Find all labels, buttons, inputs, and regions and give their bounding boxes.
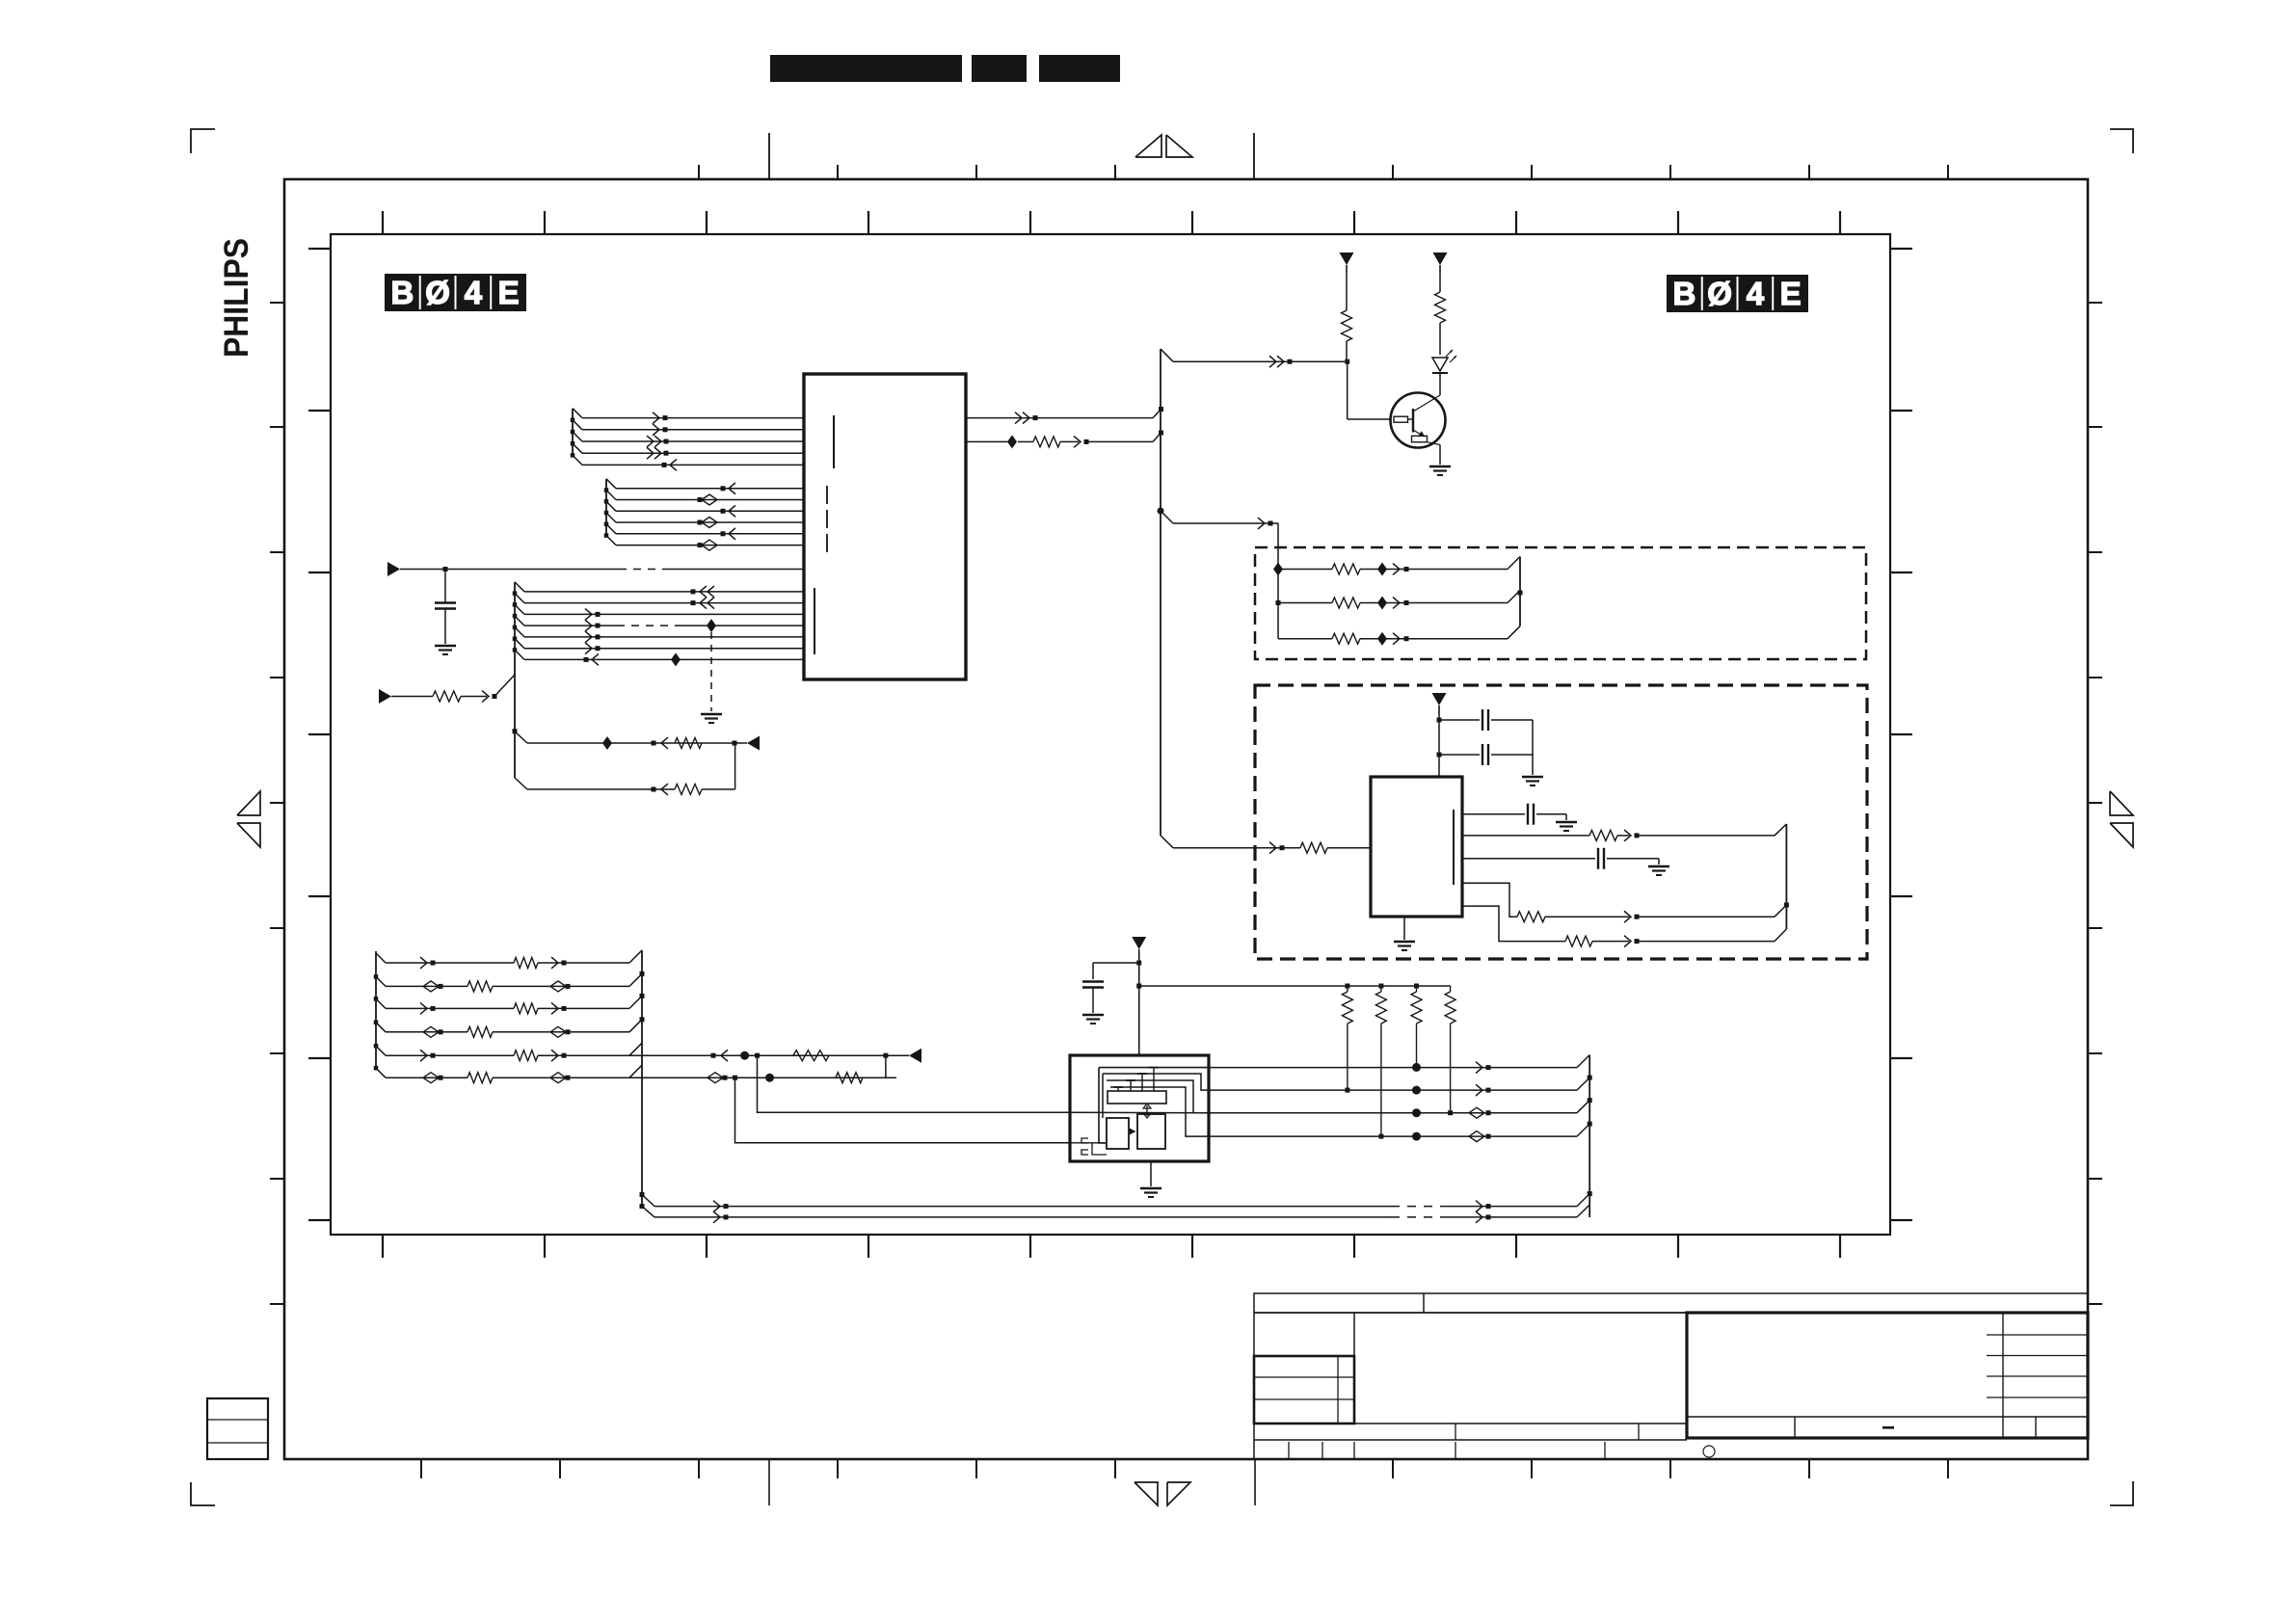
- harness wire 2: [1209, 1076, 1592, 1096]
- wire U3 ground: [1150, 1161, 1152, 1186]
- corner bracket top-left: [191, 129, 215, 153]
- resistor RN4: [1445, 986, 1455, 1115]
- wire VCC3 to U2: [1437, 713, 1442, 777]
- IC U2 (regulator): [1371, 777, 1462, 917]
- title block top band: [1254, 1293, 2088, 1313]
- title block name plate (bold): [1687, 1313, 2088, 1438]
- wire U2 ground: [1403, 917, 1405, 940]
- ground C5: [1648, 866, 1669, 875]
- wire net B upper: [642, 1050, 909, 1061]
- wire group 3 to U1: [524, 586, 804, 666]
- capacitor C2: [1439, 709, 1533, 731]
- ground stub G3: [701, 714, 722, 723]
- wire net A upper: [513, 729, 748, 750]
- input arrow B: [909, 1049, 921, 1063]
- bus vertical N2: [1159, 349, 1163, 836]
- bus stub connector J1: [571, 409, 582, 466]
- harness wire 1: [1209, 1055, 1589, 1074]
- wire row 2 of group 4: [386, 971, 645, 992]
- junction dots column: [1412, 1063, 1421, 1141]
- wire D1 to Q1 collector: [1439, 373, 1441, 395]
- bus stub connector J3: [513, 582, 524, 778]
- bus stub connector J2: [604, 479, 616, 545]
- page border bottom ticks: [421, 1459, 1948, 1505]
- wire row 6 of group 4: [386, 1073, 896, 1083]
- resistor RN2: [1375, 986, 1386, 1139]
- wire U2 pin B with R7: [1462, 824, 1786, 841]
- ground U2: [1394, 942, 1415, 950]
- wire U2 pin C with C5: [1462, 848, 1659, 869]
- wire N1 to Q1 base: [1348, 363, 1391, 419]
- capacitor C3: [1439, 720, 1533, 775]
- svg-text:Ø: Ø: [1707, 276, 1732, 311]
- input arrow IN1: [387, 562, 400, 576]
- resistor R2: [1435, 273, 1446, 355]
- title block bottom band: [1254, 1440, 1715, 1459]
- PHILIPS logo (rotated): [218, 238, 255, 358]
- wire N2 to K1: [1158, 508, 1279, 639]
- title block footer row: [1455, 1417, 2036, 1440]
- wire U2 pin D with R8: [1462, 883, 1789, 922]
- node N1: [1345, 359, 1349, 364]
- redaction bar 1 (page header): [770, 55, 962, 82]
- fold mark triangles bottom: [1135, 1482, 1190, 1505]
- dashed option box 1: [1255, 547, 1866, 659]
- power arrow VCC2: [1433, 253, 1448, 273]
- resistor RN3: [1411, 986, 1422, 1067]
- svg-text:E: E: [1780, 276, 1802, 311]
- power arrow VCC4: [1132, 937, 1146, 957]
- input arrow A: [747, 736, 760, 751]
- resistor wire row 3 in box 1: [1278, 626, 1520, 646]
- wire Q1 emitter to ground: [1439, 445, 1441, 466]
- bottom long wire 1: [642, 1191, 1592, 1211]
- resistor wire row 1 in box 1: [1278, 557, 1520, 576]
- transistor Q1: [1391, 393, 1446, 448]
- wire to U3 pin 3: [758, 1055, 1071, 1112]
- wire group 2 to U1: [616, 483, 804, 550]
- IC U3 (interface): [1070, 1055, 1209, 1161]
- revision table bottom-left: [207, 1398, 268, 1459]
- wire IN1 to U1: [400, 567, 804, 572]
- bus collector K5: [1589, 1055, 1590, 1217]
- svg-text:E: E: [498, 275, 520, 310]
- bus collector K2: [1518, 557, 1523, 626]
- wire N2 to U2 input: [1161, 836, 1371, 854]
- node label B04E right: [1667, 275, 1808, 312]
- fold mark triangles right: [2110, 791, 2133, 847]
- wire U2 pin E with R9: [1462, 906, 1786, 946]
- wire net A lower: [515, 743, 735, 795]
- ground C1: [435, 646, 456, 654]
- svg-text:PHILIPS: PHILIPS: [218, 238, 255, 358]
- harness wire 4: [1209, 1122, 1592, 1142]
- ground C2 C3: [1522, 777, 1543, 785]
- wire row 1 of group 4: [386, 950, 642, 969]
- dashed ground stub: [707, 619, 716, 711]
- title block revision column: [1987, 1313, 2088, 1438]
- fold mark triangles left: [237, 791, 260, 847]
- redaction bar 2 (page header): [972, 55, 1027, 82]
- bus collector K3: [1785, 824, 1787, 929]
- wire to U3 pin 4: [733, 1076, 1107, 1143]
- svg-text:Ø: Ø: [425, 275, 450, 310]
- ground C4: [1556, 822, 1577, 831]
- title block dash text: [1882, 1426, 1894, 1429]
- resistor R1: [1342, 273, 1352, 359]
- fold mark triangles top: [1135, 135, 1192, 157]
- schematic frame bottom ticks: [383, 1235, 1840, 1258]
- svg-text:4: 4: [1747, 276, 1765, 311]
- wire IN2: [391, 675, 515, 702]
- ground U3: [1140, 1188, 1161, 1197]
- schematic frame left ticks: [308, 249, 331, 1220]
- wire group 1 to U1: [582, 412, 804, 471]
- wire U1 out to N1: [1161, 349, 1345, 367]
- node K1 marks: [1273, 563, 1283, 606]
- wire U3 pin3 through: [1070, 1111, 1209, 1114]
- LED D1: [1432, 350, 1456, 373]
- harness wire 3: [1209, 1098, 1592, 1118]
- resistor RN1: [1342, 986, 1352, 1093]
- wire row 5 of group 4: [386, 1050, 896, 1061]
- bottom long wire 2: [642, 1205, 1589, 1223]
- ground Q1: [1429, 466, 1451, 475]
- IC U1 (main controller): [804, 374, 966, 679]
- title block body: [1254, 1313, 2088, 1459]
- svg-text:B: B: [390, 275, 414, 310]
- wire U1 pin right 2 with R10: [966, 433, 1161, 448]
- page border right ticks: [2088, 303, 2102, 1304]
- pull-up rail: [1139, 984, 1451, 989]
- ground C6: [1082, 1015, 1104, 1024]
- power arrow VCC3: [1432, 693, 1447, 713]
- IC U1 inner pin bars: [814, 415, 834, 654]
- schematic frame: [331, 234, 1890, 1235]
- corner bracket top-right: [2110, 129, 2133, 153]
- wire U1 pin right 1: [966, 410, 1161, 424]
- title block small table: [1254, 1356, 1354, 1423]
- resistor wire row 2 in box 1: [1278, 591, 1520, 610]
- corner bracket bottom-left: [191, 1482, 215, 1505]
- page border left ticks: [270, 303, 284, 1304]
- redaction bar 3 (page header): [1039, 55, 1120, 82]
- page border: [284, 179, 2088, 1459]
- svg-text:B: B: [1672, 276, 1695, 311]
- bus collector K4: [629, 950, 645, 1209]
- node label B04E left: [385, 274, 526, 311]
- wire row 3 of group 4: [386, 994, 645, 1014]
- IC U3 internals: [1081, 1068, 1209, 1155]
- corner bracket bottom-right: [2110, 1481, 2133, 1505]
- bus stub connector J4: [374, 951, 386, 1078]
- svg-text:4: 4: [465, 275, 483, 310]
- dashed option box 2: [1255, 685, 1867, 959]
- schematic frame right ticks: [1890, 249, 1912, 1220]
- capacitor C6: [1082, 963, 1139, 1013]
- wire row 4 of group 4: [386, 1017, 645, 1037]
- page border top ticks: [699, 133, 1948, 179]
- schematic frame top ticks: [383, 211, 1840, 234]
- wire net B lower: [642, 1055, 886, 1083]
- capacitor C1: [435, 570, 456, 645]
- input arrow IN2: [379, 689, 391, 704]
- wire U2 pin A with C4: [1462, 804, 1566, 825]
- power arrow VCC1: [1340, 253, 1354, 273]
- wire VCC4 node: [1136, 957, 1141, 1055]
